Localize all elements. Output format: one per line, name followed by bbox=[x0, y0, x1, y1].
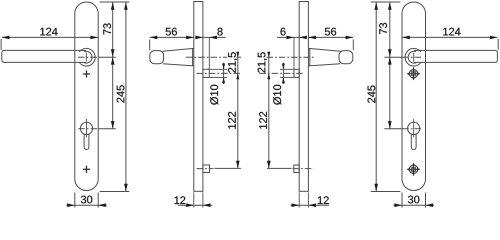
dimension 12 fig3: extension lines, line, arrows bbox=[291, 192, 330, 207]
screw mark lower fig1 bbox=[83, 166, 90, 173]
dimension 124 fig4: line, arrows, extension bbox=[402, 36, 498, 50]
dimension 124 fig1: line, arrows, extension bbox=[1, 36, 98, 50]
dimension line 21.5 and 122 fig2 bbox=[236, 52, 240, 169]
lever grip capsule side view fig3 bbox=[339, 51, 353, 64]
dimension line 245 fig4 bbox=[374, 2, 378, 192]
euro cylinder keyhole fig1 bbox=[80, 122, 92, 149]
dimension 56 fig2: line and arrows bbox=[150, 36, 194, 50]
backplate side view fig3 bbox=[299, 2, 308, 192]
lever grip capsule side view fig2 bbox=[150, 51, 164, 64]
spindle hub centerline fig3 bbox=[259, 72, 303, 74]
lever neck collar inner arc fig1 bbox=[84, 51, 92, 63]
dimension text 245 fig4 bbox=[368, 85, 376, 102]
dimension text 245 fig1 bbox=[117, 85, 125, 102]
dimension text 56 fig3 bbox=[325, 28, 336, 36]
cylinder housing bump fig3 bbox=[294, 165, 299, 173]
dimension line 21.5 and 122 fig3 bbox=[267, 52, 271, 169]
lever neck taper bottom line fig3 bbox=[308, 64, 340, 66]
lever grip bar fig4 bbox=[414, 50, 497, 62]
dimension text 122 fig2 bbox=[228, 112, 236, 129]
lever neck junction line fig3 bbox=[309, 49, 311, 66]
dimension text 8 fig2 bbox=[217, 28, 222, 36]
cylinder housing bump fig2 bbox=[203, 165, 210, 173]
dimension text 73 fig4 bbox=[379, 23, 387, 34]
cylinder centerline extension fig2 bbox=[197, 167, 241, 169]
handle centerline fig4 (dash-dot) bbox=[384, 56, 422, 58]
bottom extension line fig4 bbox=[371, 191, 401, 193]
dimension text 124 fig1 bbox=[40, 28, 57, 36]
lever grip bar fig1 bbox=[2, 50, 86, 62]
dimension text o10 fig3 bbox=[273, 85, 281, 105]
handle centerline fig2 (dash-dot) bbox=[186, 56, 241, 58]
lever neck collar inner arc fig4 bbox=[408, 51, 416, 63]
dimension line 245 fig1 bbox=[124, 2, 128, 192]
backplate of fig1 (front view, long plate rounded ends) bbox=[75, 2, 98, 191]
dimension text o10 fig2 bbox=[210, 85, 218, 105]
keyhole vertical centerline fig1 bbox=[86, 119, 88, 137]
dimension text 21,5 fig2 bbox=[228, 52, 237, 72]
dimension line o10 fig2 bbox=[222, 63, 225, 84]
dimension text 73 fig1 bbox=[103, 23, 111, 34]
screw mark upper fig1 bbox=[83, 70, 90, 77]
dimension text 56 fig2 bbox=[166, 28, 177, 36]
lever neck junction line fig2 bbox=[192, 49, 194, 66]
dimension line o10 fig3 bbox=[282, 63, 285, 84]
lever neck taper top line fig3 bbox=[308, 48, 340, 51]
handle centerline fig1 (dash-dot) bbox=[78, 56, 116, 58]
dimension text 12 fig2 bbox=[175, 196, 186, 204]
dimension 12 fig2: extension lines, line, arrows bbox=[178, 192, 213, 207]
dimension text 124 fig4 bbox=[443, 28, 460, 36]
bottom extension line fig1 bbox=[100, 191, 130, 193]
dimension text 21,5 fig3 bbox=[258, 52, 267, 72]
keyhole horizontal centerline fig1 (extends to dimension line) bbox=[78, 128, 116, 130]
lever neck collar outer arc fig4 bbox=[405, 48, 421, 66]
dimension 30 fig1: extension lines, line, arrows bbox=[66, 193, 106, 208]
dimension text 30 fig1 bbox=[81, 196, 92, 204]
dimension text 6 fig3 bbox=[281, 28, 286, 36]
dimension 30 fig4: extension lines, line, arrows bbox=[394, 193, 434, 208]
cylinder centerline extension fig3 bbox=[267, 167, 314, 169]
spindle hub centerline fig2 bbox=[197, 72, 241, 74]
top extension line fig1 bbox=[100, 1, 130, 3]
dimension text 122 fig3 bbox=[259, 112, 267, 129]
extension line hub bottom fig2 bbox=[209, 76, 227, 78]
lever neck taper bottom line fig2 bbox=[163, 64, 194, 66]
dimension line 73 and PZ distance fig4 bbox=[388, 2, 392, 129]
dimension line 73 and PZ distance fig1 bbox=[111, 2, 115, 129]
lever neck taper top line fig2 bbox=[163, 48, 194, 51]
spindle hub square fig2 (o10 bump at back) bbox=[203, 69, 209, 77]
extension line hub top fig3 bbox=[280, 68, 294, 70]
dimension 56 fig3: line and arrows bbox=[308, 36, 353, 50]
backplate of fig4 (front view) bbox=[402, 2, 426, 191]
extension line hub bottom fig3 bbox=[280, 76, 294, 78]
lever neck collar outer arc fig1 bbox=[79, 48, 95, 66]
euro cylinder keyhole fig4 bbox=[408, 122, 420, 149]
extension line hub top fig2 bbox=[209, 68, 227, 70]
ornate screw mark upper fig4 bbox=[407, 67, 420, 80]
handle center vertical crosshair fig1 bbox=[85, 53, 87, 62]
spindle hub square fig3 bbox=[294, 69, 299, 77]
dimension text 12 fig3 bbox=[318, 196, 329, 204]
dimension text 30 fig4 bbox=[408, 196, 419, 204]
dimension 6 fig3: line and outside arrows bbox=[277, 36, 307, 70]
backplate side view fig2 bbox=[194, 2, 203, 192]
handle centerline fig3 (dash-dot) bbox=[267, 56, 315, 58]
keyhole horizontal centerline fig4 bbox=[384, 128, 422, 130]
keyhole vertical centerline fig4 bbox=[413, 119, 415, 137]
ornate screw mark lower fig4 bbox=[407, 163, 420, 176]
dimension 8 fig2: line and outside arrows bbox=[195, 36, 225, 70]
handle center vertical crosshair fig4 bbox=[413, 53, 415, 62]
top extension line fig4 bbox=[371, 1, 401, 3]
